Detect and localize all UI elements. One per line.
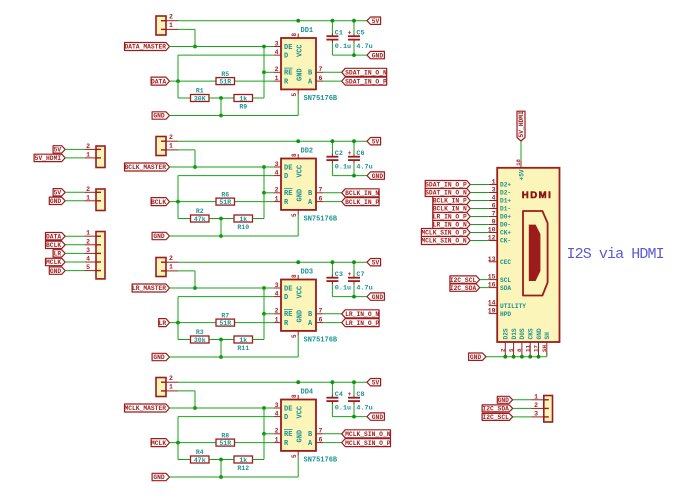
svg-text:D: D bbox=[284, 53, 288, 61]
svg-text:51R: 51R bbox=[219, 320, 231, 327]
wire bbox=[470, 224, 489, 226]
wire 5V rail row (J2 pin2 to 5V) bbox=[178, 140, 367, 142]
label BCLK bbox=[151, 198, 169, 206]
svg-text:1k: 1k bbox=[239, 216, 247, 223]
wire B output to LR_IN_O_N bbox=[323, 313, 342, 315]
svg-text:R5: R5 bbox=[221, 71, 229, 78]
svg-text:4: 4 bbox=[86, 256, 90, 263]
wire bbox=[65, 270, 84, 272]
svg-text:3: 3 bbox=[534, 410, 538, 417]
connector J1 2-pin header bbox=[156, 13, 178, 35]
wire bbox=[470, 200, 489, 202]
junction bbox=[193, 165, 197, 169]
capacitor C4 0.1u bbox=[326, 382, 351, 416]
junction bbox=[352, 295, 356, 299]
svg-text:DATA: DATA bbox=[151, 78, 166, 85]
svg-text:1: 1 bbox=[275, 195, 279, 202]
svg-text:6: 6 bbox=[492, 203, 496, 210]
svg-text:4: 4 bbox=[275, 169, 279, 176]
svg-text:5V: 5V bbox=[372, 138, 380, 145]
svg-text:GND: GND bbox=[50, 268, 62, 275]
wire divider mid bbox=[209, 339, 234, 341]
svg-text:CK+: CK+ bbox=[500, 230, 511, 237]
label LR_IN_O_P (HDMI side) bbox=[433, 213, 470, 221]
svg-text:9: 9 bbox=[492, 219, 496, 226]
wire DE-RE tie vertical bbox=[263, 288, 265, 340]
svg-text:MCLK: MCLK bbox=[151, 440, 166, 447]
supply 5V bbox=[367, 379, 381, 386]
svg-text:3: 3 bbox=[275, 282, 279, 289]
svg-text:HDMI: HDMI bbox=[522, 190, 553, 201]
svg-text:2: 2 bbox=[534, 402, 538, 409]
svg-text:I2C_SDA: I2C_SDA bbox=[482, 406, 509, 413]
junction bbox=[296, 380, 300, 384]
resistor R1 30K bbox=[191, 88, 210, 103]
wire divider row left bbox=[178, 218, 191, 220]
svg-text:4: 4 bbox=[492, 195, 496, 202]
svg-text:GND: GND bbox=[50, 198, 62, 205]
svg-text:D1-: D1- bbox=[500, 206, 511, 213]
svg-text:2: 2 bbox=[86, 186, 90, 193]
svg-text:GND: GND bbox=[536, 328, 543, 339]
svg-text:+5V: +5V bbox=[519, 169, 526, 180]
svg-text:MCLK_SIN_O_P: MCLK_SIN_O_P bbox=[345, 440, 391, 447]
svg-text:R6: R6 bbox=[221, 191, 229, 198]
svg-text:LR_IN_O_P: LR_IN_O_P bbox=[345, 320, 379, 327]
svg-text:5: 5 bbox=[508, 348, 515, 352]
svg-text:2: 2 bbox=[169, 13, 173, 20]
wire divider tap to gnd bbox=[220, 340, 222, 358]
svg-text:1k: 1k bbox=[239, 337, 247, 344]
wire D row bbox=[178, 416, 274, 418]
wire divider row right bbox=[253, 72, 265, 98]
svg-text:C4: C4 bbox=[335, 391, 343, 399]
junction bbox=[352, 380, 356, 384]
svg-text:R9: R9 bbox=[239, 103, 247, 110]
svg-text:5V: 5V bbox=[54, 190, 62, 197]
wire A output to MCLK_SIN_O_P bbox=[323, 442, 342, 444]
svg-text:DD4: DD4 bbox=[301, 389, 314, 397]
connector SV3 5-pin signal header bbox=[84, 230, 105, 279]
wire DATA row to R pin bbox=[170, 80, 275, 82]
svg-text:D: D bbox=[284, 294, 288, 302]
svg-text:RE: RE bbox=[284, 311, 292, 319]
svg-text:5V: 5V bbox=[372, 379, 380, 386]
svg-text:30k: 30k bbox=[194, 337, 206, 344]
svg-text:R4: R4 bbox=[196, 449, 204, 456]
wire LR row to R pin bbox=[170, 322, 275, 324]
junction bbox=[352, 415, 356, 419]
ground GND bbox=[367, 293, 384, 300]
resistor R8 51R bbox=[216, 432, 235, 447]
svg-text:C7: C7 bbox=[356, 271, 364, 279]
label LR bbox=[53, 250, 65, 257]
svg-text:R10: R10 bbox=[237, 224, 249, 231]
wire cap gnd row bbox=[332, 416, 367, 418]
resistor R2 47k bbox=[191, 208, 210, 223]
wire 5V rail row (J3 pin2 to 5V) bbox=[178, 261, 367, 263]
svg-text:DD3: DD3 bbox=[301, 269, 314, 277]
junction bbox=[262, 191, 266, 195]
wire bbox=[470, 208, 489, 210]
svg-text:7: 7 bbox=[492, 211, 496, 218]
label MCLK_SIN_O_P bbox=[342, 439, 391, 447]
svg-text:SDAT_IN_O_P: SDAT_IN_O_P bbox=[345, 78, 387, 85]
label GND bbox=[152, 232, 169, 239]
label GND bbox=[49, 267, 65, 274]
wire bbox=[65, 252, 84, 254]
svg-text:19: 19 bbox=[488, 308, 496, 315]
ground GND bbox=[367, 51, 384, 58]
junction bbox=[331, 139, 335, 143]
junction bbox=[219, 234, 223, 238]
svg-text:SDA: SDA bbox=[500, 285, 511, 292]
label LR_IN_O_N bbox=[342, 310, 379, 318]
capacitor C7 4.7u polarized bbox=[348, 262, 373, 296]
wire divider row left bbox=[178, 459, 191, 461]
junction bbox=[262, 286, 266, 290]
svg-text:R12: R12 bbox=[237, 465, 249, 472]
junction bbox=[352, 174, 356, 178]
label BCLK_IN_N (HDMI side) bbox=[433, 205, 470, 213]
label BCLK_MASTER bbox=[125, 163, 170, 171]
svg-text:GND: GND bbox=[153, 113, 165, 120]
junction bbox=[352, 19, 356, 23]
wire A output to BCLK_IN_P bbox=[323, 201, 342, 203]
svg-text:DE: DE bbox=[284, 44, 292, 52]
svg-text:DE: DE bbox=[284, 164, 292, 172]
svg-text:2: 2 bbox=[500, 348, 507, 352]
HDMI plug drawing bbox=[523, 211, 548, 296]
svg-text:BCLK_IN_P: BCLK_IN_P bbox=[345, 199, 379, 206]
junction bbox=[219, 96, 223, 100]
svg-text:C1: C1 bbox=[335, 30, 343, 38]
svg-text:GND: GND bbox=[297, 430, 305, 443]
svg-text:3: 3 bbox=[86, 247, 90, 254]
label 5V bbox=[53, 146, 65, 153]
wire divider mid bbox=[209, 97, 234, 99]
svg-text:VCC: VCC bbox=[297, 286, 305, 299]
resistor R11 1k bbox=[234, 336, 253, 352]
wire bbox=[480, 279, 489, 281]
svg-text:I2C_SCL: I2C_SCL bbox=[450, 277, 477, 284]
svg-text:RE: RE bbox=[284, 70, 292, 78]
svg-text:DD1: DD1 bbox=[301, 27, 314, 35]
wire divider row left bbox=[178, 97, 191, 99]
wire bbox=[470, 232, 489, 234]
wire divider mid bbox=[209, 459, 234, 461]
svg-text:6: 6 bbox=[319, 316, 323, 323]
svg-text:CK-: CK- bbox=[500, 238, 511, 245]
svg-text:BCLK: BCLK bbox=[151, 199, 166, 206]
wire DE-RE tie vertical bbox=[263, 408, 265, 460]
label MCLK_SIN_O_P (HDMI side) bbox=[421, 229, 470, 237]
junction bbox=[262, 45, 266, 49]
svg-text:R7: R7 bbox=[221, 312, 229, 319]
svg-text:3: 3 bbox=[275, 40, 279, 47]
svg-text:LR: LR bbox=[54, 251, 62, 258]
svg-text:GND: GND bbox=[153, 233, 165, 240]
wire bbox=[470, 184, 489, 186]
svg-text:15: 15 bbox=[488, 274, 496, 281]
svg-text:GND: GND bbox=[372, 173, 384, 180]
label 5V_HDMI vertical bbox=[517, 111, 525, 141]
wire J2 pin1 to master net bbox=[178, 150, 195, 167]
wire D-tap vertical bbox=[177, 55, 179, 98]
svg-text:GND: GND bbox=[470, 354, 482, 361]
wire bbox=[470, 192, 489, 194]
junction bbox=[193, 406, 197, 410]
svg-text:LR_IN_O_P: LR_IN_O_P bbox=[433, 214, 467, 221]
svg-text:3: 3 bbox=[275, 402, 279, 409]
label GND bbox=[49, 197, 65, 204]
label LR bbox=[159, 319, 170, 327]
junction bbox=[262, 312, 266, 316]
svg-text:5V: 5V bbox=[372, 259, 380, 266]
junction bbox=[331, 19, 335, 23]
label I2C_SDA bbox=[482, 405, 513, 412]
svg-text:SH: SH bbox=[544, 332, 551, 340]
junction bbox=[262, 165, 266, 169]
svg-text:D0-: D0- bbox=[500, 222, 511, 229]
junction bbox=[262, 432, 266, 436]
svg-text:1: 1 bbox=[275, 75, 279, 82]
svg-text:RE: RE bbox=[284, 190, 292, 198]
wire bbox=[65, 200, 84, 202]
wire RE stub row bbox=[264, 192, 274, 194]
wire RE stub row bbox=[264, 433, 274, 435]
wire master row to DE pin bbox=[170, 287, 275, 289]
junction bbox=[262, 406, 266, 410]
label SDAT_IN_O_N (HDMI side) bbox=[425, 189, 470, 197]
svg-text:MCLK_SIN_O_P: MCLK_SIN_O_P bbox=[421, 230, 467, 237]
svg-text:12: 12 bbox=[488, 235, 496, 242]
svg-text:6: 6 bbox=[319, 436, 323, 443]
capacitor C1 0.1u bbox=[326, 21, 351, 55]
svg-text:51R: 51R bbox=[219, 440, 231, 447]
svg-text:GND: GND bbox=[498, 397, 510, 404]
resistor R9 1k bbox=[234, 95, 253, 111]
wire bbox=[513, 416, 532, 418]
svg-text:GND: GND bbox=[153, 474, 165, 481]
label 5V bbox=[53, 189, 65, 196]
svg-text:4.7u: 4.7u bbox=[356, 163, 372, 171]
svg-text:D2S: D2S bbox=[503, 328, 510, 339]
svg-text:CKS: CKS bbox=[528, 328, 535, 339]
wire 5V rail row (J1 pin2 to 5V) bbox=[178, 20, 367, 22]
svg-text:I2S via HDMI: I2S via HDMI bbox=[567, 246, 664, 263]
junction bbox=[352, 53, 356, 57]
svg-text:C8: C8 bbox=[356, 391, 364, 399]
label I2C_SDA (HDMI side) bbox=[450, 284, 480, 291]
svg-text:GND: GND bbox=[372, 52, 384, 59]
supply 5V bbox=[367, 259, 381, 266]
junction bbox=[219, 338, 223, 342]
svg-text:C3: C3 bbox=[335, 271, 343, 279]
label BCLK_IN_N bbox=[342, 189, 379, 197]
junction bbox=[528, 355, 532, 359]
svg-text:3: 3 bbox=[492, 187, 496, 194]
svg-text:1: 1 bbox=[169, 264, 173, 271]
svg-text:7: 7 bbox=[319, 187, 323, 194]
wire gnd row bbox=[170, 456, 299, 477]
svg-text:SH: SH bbox=[541, 345, 548, 352]
svg-text:0.1u: 0.1u bbox=[335, 404, 351, 412]
svg-text:+: + bbox=[348, 391, 352, 398]
svg-text:MCLK_MASTER: MCLK_MASTER bbox=[124, 405, 166, 412]
wire bbox=[65, 157, 84, 159]
wire 5V rail row (J4 pin2 to 5V) bbox=[178, 381, 367, 383]
svg-text:2: 2 bbox=[169, 134, 173, 141]
junction bbox=[537, 355, 541, 359]
svg-text:1: 1 bbox=[86, 151, 90, 158]
connector J4 2-pin header bbox=[156, 375, 178, 397]
label SDAT_IN_O_P (HDMI side) bbox=[425, 181, 470, 189]
wire J4 pin1 to master net bbox=[178, 391, 195, 408]
HDMI top pin 18 +5V bbox=[515, 158, 525, 180]
wire divider row right bbox=[253, 314, 265, 340]
svg-text:17: 17 bbox=[533, 345, 540, 352]
svg-text:R1: R1 bbox=[196, 88, 204, 95]
wire B output to BCLK_IN_N bbox=[323, 192, 342, 194]
junction bbox=[352, 260, 356, 264]
label BCLK_IN_P (HDMI side) bbox=[433, 197, 470, 205]
svg-text:DATA: DATA bbox=[46, 233, 61, 240]
svg-text:0.1u: 0.1u bbox=[335, 43, 351, 51]
wire bbox=[65, 148, 84, 150]
svg-text:5V_HDMI: 5V_HDMI bbox=[35, 155, 62, 162]
svg-text:47k: 47k bbox=[194, 457, 206, 464]
junction bbox=[176, 321, 180, 325]
wire A output to SDAT_IN_O_P bbox=[323, 80, 342, 82]
svg-text:GND: GND bbox=[297, 68, 305, 81]
svg-text:SDAT_IN_O_N: SDAT_IN_O_N bbox=[345, 70, 387, 77]
svg-text:MCLK_SIN_O_N: MCLK_SIN_O_N bbox=[345, 431, 391, 438]
svg-text:RE: RE bbox=[284, 431, 292, 439]
svg-text:GND: GND bbox=[372, 294, 384, 301]
resistor R7 51R bbox=[216, 312, 235, 327]
junction bbox=[520, 355, 524, 359]
svg-text:DE: DE bbox=[284, 405, 292, 413]
svg-text:GND: GND bbox=[297, 310, 305, 323]
label GND bbox=[152, 473, 169, 480]
svg-text:30K: 30K bbox=[194, 96, 206, 103]
ground GND bbox=[367, 172, 384, 179]
junction bbox=[331, 380, 335, 384]
wire RE stub row bbox=[264, 313, 274, 315]
svg-text:LR_IN_O_N: LR_IN_O_N bbox=[433, 222, 467, 229]
label MCLK_SIN_O_N (HDMI side) bbox=[421, 237, 470, 245]
junction bbox=[176, 441, 180, 445]
supply 5V bbox=[367, 138, 381, 145]
svg-text:R11: R11 bbox=[237, 345, 249, 352]
svg-text:0.1u: 0.1u bbox=[335, 163, 351, 171]
svg-text:1: 1 bbox=[86, 230, 90, 237]
svg-text:10: 10 bbox=[488, 227, 496, 234]
resistor R10 1k bbox=[234, 215, 253, 231]
junction bbox=[503, 355, 507, 359]
label 5V_HDMI bbox=[34, 154, 65, 161]
junction bbox=[219, 217, 223, 221]
wire D row bbox=[178, 175, 274, 177]
wire cap gnd row bbox=[332, 175, 367, 177]
svg-text:1: 1 bbox=[275, 436, 279, 443]
svg-text:2: 2 bbox=[169, 255, 173, 262]
svg-text:GND: GND bbox=[153, 354, 165, 361]
svg-text:MCLK: MCLK bbox=[46, 259, 61, 266]
svg-text:7: 7 bbox=[319, 66, 323, 73]
wire gnd bus under HDMI bbox=[486, 353, 547, 357]
svg-text:+: + bbox=[348, 150, 352, 157]
svg-text:3: 3 bbox=[275, 161, 279, 168]
label DATA bbox=[151, 77, 169, 85]
svg-text:6: 6 bbox=[319, 75, 323, 82]
svg-text:47k: 47k bbox=[194, 216, 206, 223]
svg-text:5V: 5V bbox=[372, 18, 380, 25]
svg-text:1: 1 bbox=[534, 393, 538, 400]
wire bbox=[480, 287, 489, 289]
svg-text:BCLK_IN_N: BCLK_IN_N bbox=[433, 206, 467, 213]
wire divider row right bbox=[253, 193, 265, 219]
svg-text:SDAT_IN_O_P: SDAT_IN_O_P bbox=[425, 182, 467, 189]
junction bbox=[176, 79, 180, 83]
svg-text:I2C_SDA: I2C_SDA bbox=[450, 285, 477, 292]
junction bbox=[331, 260, 335, 264]
capacitor C2 0.1u bbox=[326, 141, 351, 175]
svg-text:4.7u: 4.7u bbox=[356, 284, 372, 292]
wire divider row right bbox=[253, 434, 265, 460]
svg-text:4: 4 bbox=[275, 49, 279, 56]
svg-text:16: 16 bbox=[488, 282, 496, 289]
svg-text:+: + bbox=[348, 271, 352, 278]
svg-text:D: D bbox=[284, 173, 288, 181]
svg-text:5: 5 bbox=[291, 334, 298, 338]
svg-text:6: 6 bbox=[319, 195, 323, 202]
svg-text:2: 2 bbox=[275, 308, 279, 315]
wire BCLK row to R pin bbox=[170, 201, 275, 203]
junction bbox=[219, 458, 223, 462]
label MCLK_MASTER bbox=[125, 404, 170, 412]
svg-text:8: 8 bbox=[291, 274, 298, 278]
wire divider mid bbox=[209, 218, 234, 220]
junction bbox=[296, 139, 300, 143]
junction bbox=[219, 114, 223, 118]
wire divider tap to gnd bbox=[220, 98, 222, 116]
svg-text:LR_IN_O_N: LR_IN_O_N bbox=[345, 311, 379, 318]
svg-text:8: 8 bbox=[291, 33, 298, 37]
resistor R3 30k bbox=[191, 329, 210, 344]
svg-text:SN75176B: SN75176B bbox=[304, 95, 338, 103]
svg-text:5: 5 bbox=[291, 93, 298, 97]
ground GND (HDMI) bbox=[469, 353, 486, 360]
svg-text:VCC: VCC bbox=[297, 44, 305, 57]
svg-text:VCC: VCC bbox=[297, 406, 305, 419]
wire J3 pin1 to master net bbox=[178, 271, 195, 288]
op-amp-style IC DD1 SN75176B bbox=[274, 27, 338, 103]
svg-text:GND: GND bbox=[372, 414, 384, 421]
wire divider row left bbox=[178, 339, 191, 341]
svg-text:51R: 51R bbox=[219, 199, 231, 206]
junction bbox=[512, 355, 516, 359]
wire D-tap vertical bbox=[177, 297, 179, 340]
label I2C_SCL bbox=[482, 413, 513, 420]
label GND bbox=[497, 396, 512, 403]
svg-text:DD2: DD2 bbox=[301, 148, 314, 156]
svg-text:8: 8 bbox=[516, 348, 523, 352]
svg-text:1: 1 bbox=[169, 22, 173, 29]
wire master row to DE pin bbox=[170, 407, 275, 409]
label GND bbox=[152, 353, 169, 360]
